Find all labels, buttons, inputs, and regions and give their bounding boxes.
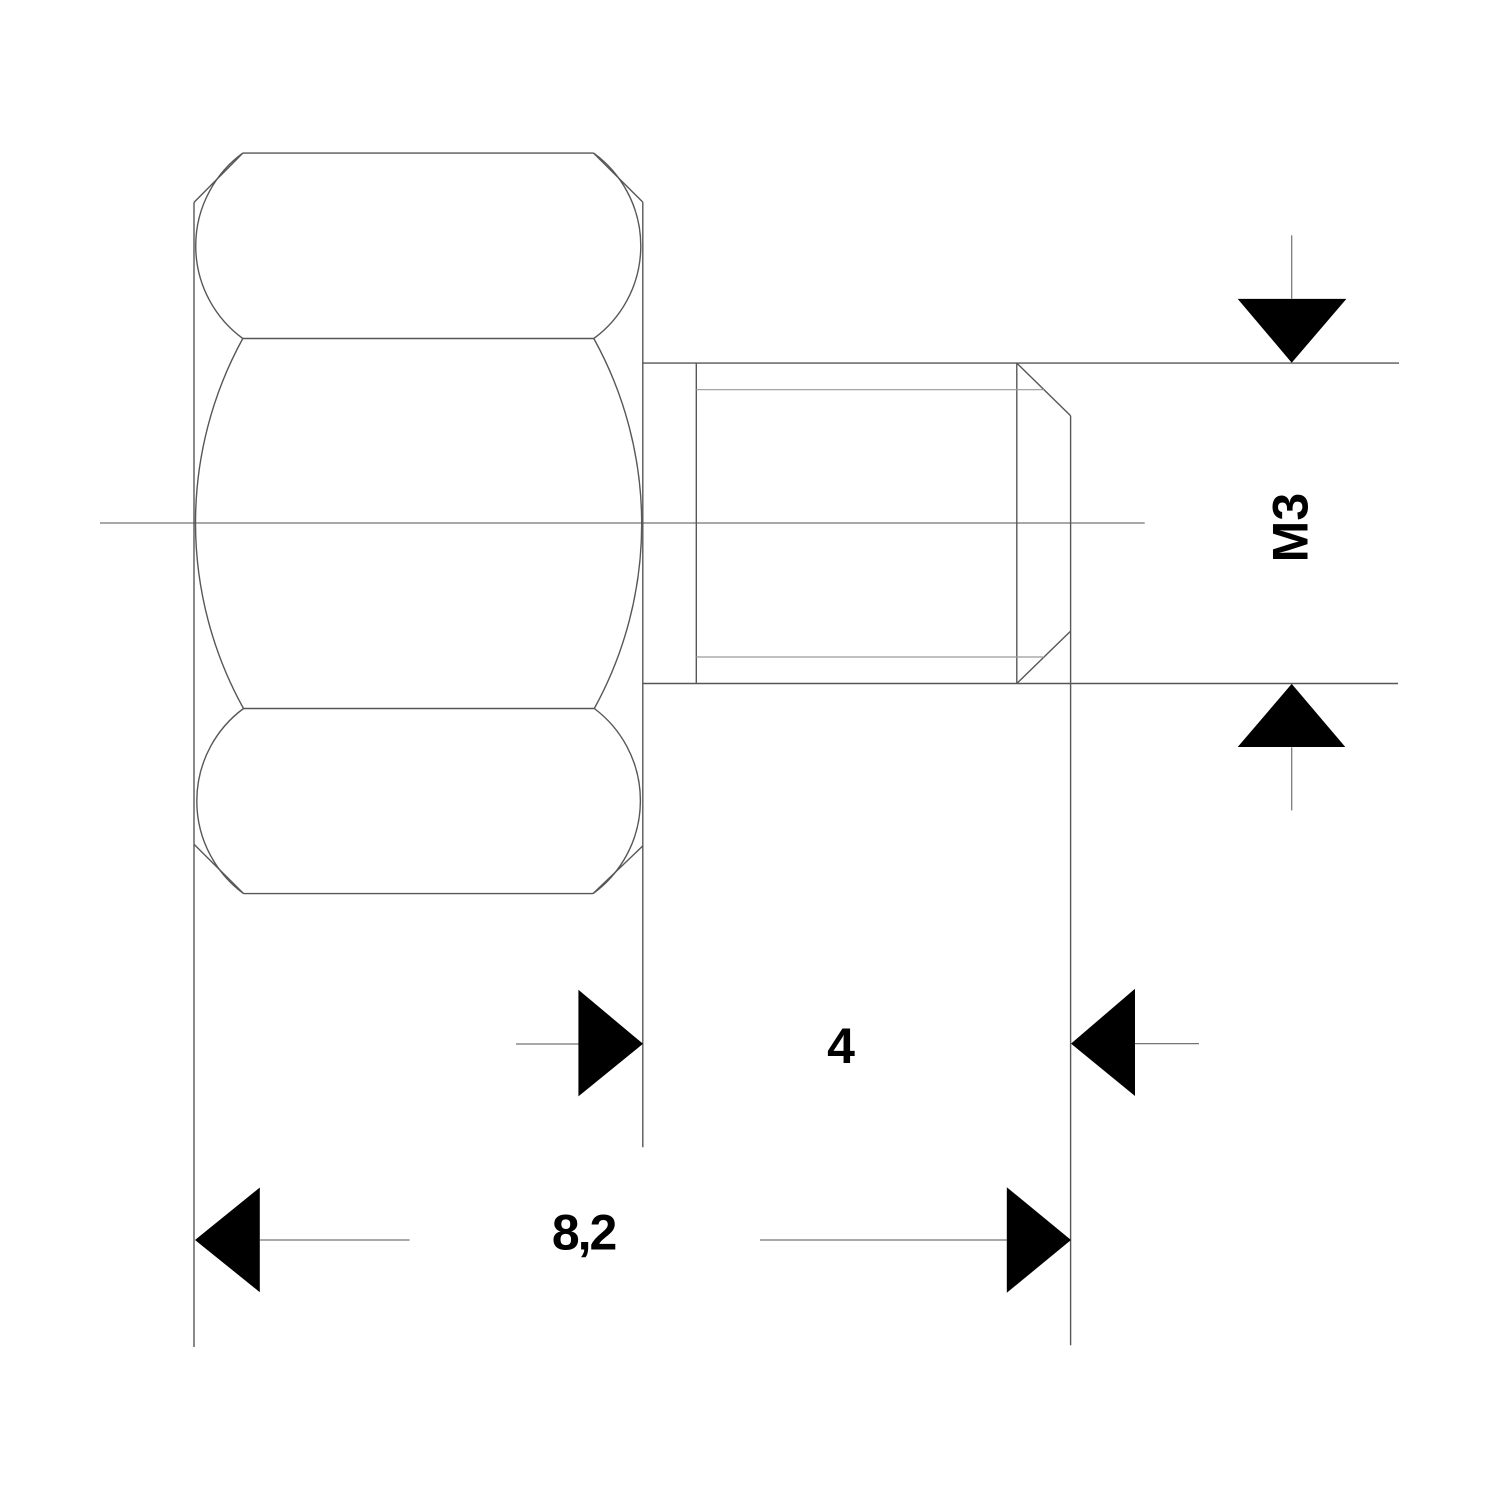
svg-text:8,2: 8,2: [552, 1205, 616, 1261]
svg-text:4: 4: [827, 1018, 855, 1074]
stud top chamfer diagonal: [1017, 363, 1071, 416]
chamfer arc top facet right: [594, 153, 641, 338]
chamfer arc top facet left: [196, 153, 243, 338]
hex head top-right corner chamfer: [594, 153, 643, 202]
dim 8,2 left leader: [260, 1239, 410, 1241]
M3 bottom leader: [1291, 747, 1293, 810]
thread runout line: [695, 363, 697, 683]
dim 4 right arrow: [1071, 989, 1135, 1096]
hex facet boundary upper: [243, 338, 594, 340]
chamfer arc middle facet right: [594, 339, 642, 709]
hex head right face edge + 4 extension line: [642, 202, 644, 1147]
hex head bottom edge: [244, 893, 593, 895]
chamfer arc bottom facet left: [197, 709, 244, 894]
hex head top edge: [243, 152, 594, 154]
M3 bottom arrow: [1238, 684, 1346, 747]
stud top outline + M3 extension line: [643, 362, 1399, 364]
dim 8,2 left arrow: [195, 1188, 260, 1293]
hex head bottom-left corner chamfer: [194, 844, 244, 893]
svg-text:M3: M3: [1263, 493, 1319, 562]
chamfer arc middle facet left: [196, 339, 244, 709]
dim 4 left arrow: [578, 990, 643, 1097]
dim 8,2 right arrow: [1007, 1187, 1071, 1293]
dim 8,2 right leader: [760, 1239, 1007, 1241]
chamfer arc bottom facet right: [593, 709, 640, 894]
centerline: [100, 522, 1145, 524]
chamfer start line: [1016, 363, 1018, 683]
hex head bottom-right corner chamfer: [593, 846, 643, 894]
M3 top leader: [1291, 235, 1293, 298]
dim 4 right leader: [1135, 1043, 1199, 1045]
M3 top arrow: [1238, 299, 1347, 363]
dim 4 left leader: [516, 1043, 578, 1045]
stud end face edge + 8,2/4 extension line: [1070, 416, 1072, 1345]
thread minor diameter bottom: [696, 656, 1044, 658]
stud bottom outline + M3 extension line: [643, 683, 1398, 685]
hex facet boundary lower: [244, 708, 595, 710]
thread minor diameter top: [696, 389, 1044, 391]
hex head top-left corner chamfer: [194, 153, 243, 202]
stud bottom chamfer diagonal: [1017, 631, 1071, 683]
hex head left face edge + 8,2 extension line: [193, 202, 195, 1347]
